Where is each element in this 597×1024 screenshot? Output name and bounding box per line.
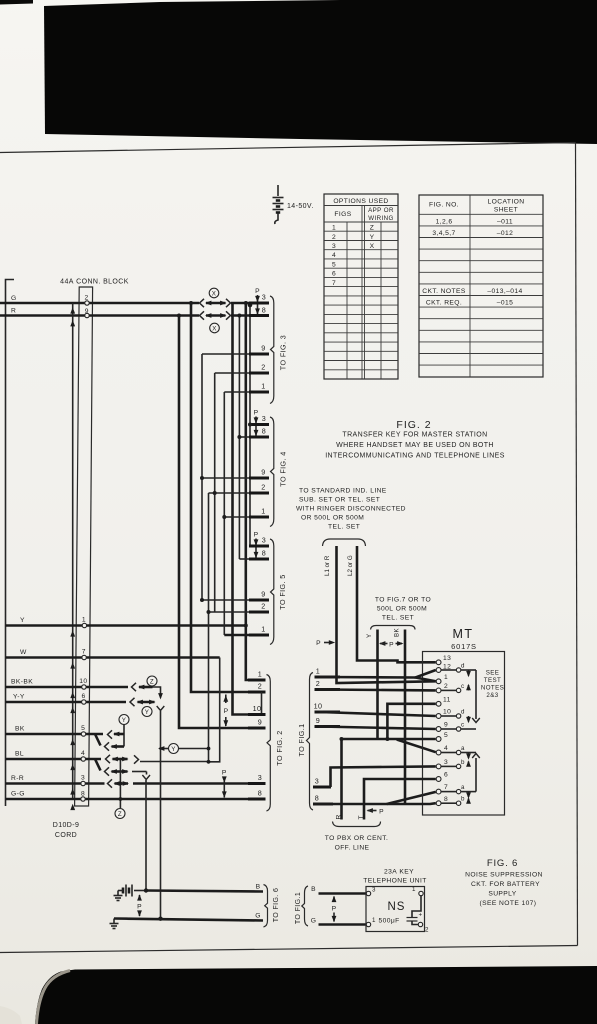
junction battery to B lead (144, 888, 148, 892)
svg-text:P: P (316, 640, 321, 647)
terminal 8 fig2 (248, 798, 266, 801)
svg-text:9: 9 (261, 344, 265, 353)
terminal 10 fig2 (248, 713, 266, 716)
svg-text:X: X (212, 326, 217, 333)
BK-BK break contact (132, 683, 137, 691)
svg-text:2: 2 (261, 363, 265, 372)
bracket over Y BK (371, 626, 416, 630)
svg-text:FIG. 6: FIG. 6 (487, 858, 518, 869)
terminal 9 fig2 (248, 727, 266, 730)
svg-text:TO FIG.7 OR TO: TO FIG.7 OR TO (375, 597, 431, 604)
svg-text:7: 7 (332, 280, 336, 287)
Z option strap vertical (119, 759, 121, 808)
P tick between B and G (139, 895, 141, 901)
svg-text:1: 1 (412, 886, 416, 893)
mesh wire term3 riser to MT3 (331, 766, 436, 787)
right border line (576, 143, 578, 946)
svg-text:3: 3 (332, 243, 336, 250)
svg-text:–013,–014: –013,–014 (487, 288, 522, 295)
wire fig3-1 (224, 391, 249, 393)
svg-text:TELEPHONE UNIT: TELEPHONE UNIT (363, 878, 427, 885)
svg-text:BK-BK: BK-BK (11, 679, 33, 686)
svg-text:8: 8 (444, 796, 448, 803)
battery plates (273, 197, 284, 199)
BL transfer arrows (113, 758, 128, 761)
BL wire onward to bus V10 (140, 761, 209, 763)
wire B into NS (319, 892, 367, 895)
svg-text:WHERE HANDSET MAY BE USED ON B: WHERE HANDSET MAY BE USED ON BOTH (336, 442, 494, 449)
svg-text:BK: BK (15, 726, 25, 733)
svg-text:2: 2 (316, 679, 320, 688)
svg-text:9: 9 (261, 590, 265, 599)
spring row 9 c (441, 728, 456, 730)
svg-text:WITH RINGER DISCONNECTED: WITH RINGER DISCONNECTED (296, 506, 406, 513)
wire R (0, 314, 199, 317)
wire BL term 4 (6, 758, 102, 761)
svg-text:Z: Z (370, 225, 375, 232)
svg-text:d: d (461, 709, 465, 716)
wire G-G term 8 (6, 798, 249, 801)
ground symbol at G lead (110, 919, 119, 929)
option X designation circle (lower) (210, 323, 220, 333)
Y3 left arrow (159, 748, 168, 750)
battery feed strap down (145, 780, 147, 891)
MT terminal circles and numbers (436, 655, 451, 806)
svg-text:7: 7 (82, 649, 86, 656)
svg-text:P: P (222, 770, 227, 777)
Y key moving arm on Y-Y (138, 701, 155, 704)
pin 12 (436, 668, 441, 673)
wire G (0, 302, 199, 305)
svg-text:G: G (311, 918, 317, 925)
link terminal 2 to 10 (261, 692, 263, 715)
svg-text:14-50V.: 14-50V. (287, 203, 314, 210)
vertical bus 1 (V5) (223, 392, 225, 635)
svg-text:SUPPLY: SUPPLY (488, 891, 516, 898)
svg-text:10: 10 (314, 702, 323, 711)
MT unit box (423, 652, 505, 816)
mesh wire term9 to MT9 (320, 727, 436, 730)
svg-text:T: T (358, 815, 365, 820)
bracket fig1 bottom (302, 886, 308, 926)
svg-text:NOTES: NOTES (481, 685, 504, 692)
svg-text:4: 4 (81, 750, 85, 757)
vertical bus 8 (V8) (238, 316, 240, 560)
svg-text:1: 1 (332, 225, 336, 232)
wire BK term 5 (6, 733, 104, 736)
wire G into NS (319, 923, 367, 926)
option Y key circle (BK arm) (119, 715, 129, 725)
svg-text:CORD: CORD (55, 832, 77, 839)
svg-text:8: 8 (315, 794, 319, 803)
svg-text:TRANSFER KEY FOR MASTER STATIO: TRANSFER KEY FOR MASTER STATION (342, 432, 487, 439)
svg-text:3: 3 (258, 773, 262, 782)
svg-text:5: 5 (332, 262, 336, 269)
svg-text:+: + (419, 912, 423, 919)
wire BK to MT 7 (404, 630, 407, 805)
spring row 4 a (441, 752, 456, 754)
vertical bus G (V2) to fig2 term 2 (191, 303, 248, 692)
pin 11 (436, 701, 441, 706)
terminal 3 fig2 (248, 782, 266, 785)
svg-text:1: 1 (258, 670, 262, 679)
svg-text:OR 500L OR 500M: OR 500L OR 500M (301, 515, 364, 522)
svg-text:OFF. LINE: OFF. LINE (335, 845, 370, 852)
bracket to fig6 (264, 885, 268, 928)
battery symbol stem (277, 185, 279, 196)
terminal 8 fig4 (239, 436, 249, 438)
svg-text:G-G: G-G (11, 791, 25, 798)
svg-text:P: P (224, 708, 229, 715)
Y key arm vertical BK rows (123, 725, 125, 747)
Y-Y break contact (130, 698, 135, 706)
svg-text:LOCATION: LOCATION (488, 199, 525, 206)
location sheet table (419, 195, 543, 377)
svg-text:TO PBX OR CENT.: TO PBX OR CENT. (325, 835, 388, 842)
BL fork slant (95, 759, 101, 771)
R-R transfer arrows (115, 782, 129, 785)
wire fig5-2 (209, 611, 250, 613)
wire Y term 1 (6, 624, 246, 627)
mesh wire term1 to hairpin (320, 676, 416, 679)
battery lower stem + hook (275, 214, 278, 225)
svg-text:2: 2 (444, 683, 448, 690)
svg-text:1: 1 (372, 917, 376, 924)
see test notes (481, 670, 504, 700)
svg-text:44A CONN. BLOCK: 44A CONN. BLOCK (60, 279, 129, 286)
svg-text:TEL. SET: TEL. SET (328, 524, 360, 531)
option Y key circle (right arm) (169, 744, 179, 754)
svg-text:8: 8 (258, 789, 262, 798)
svg-text:P: P (255, 288, 260, 295)
BK fork slant (95, 734, 101, 746)
svg-text:L1 or R: L1 or R (324, 555, 331, 576)
terminal 1 fig2 (248, 679, 266, 682)
bracket fig5 (270, 539, 274, 645)
spring row 7 a (441, 791, 456, 793)
lower connector with open contact (472, 754, 480, 759)
svg-text:c: c (461, 722, 465, 729)
svg-text:X: X (212, 291, 217, 298)
svg-text:9: 9 (444, 722, 448, 729)
mesh wire term8 to MT8 (313, 802, 436, 805)
svg-text:SEE: SEE (486, 670, 500, 677)
svg-text:2: 2 (332, 234, 336, 241)
wire BK-BK term 10 (6, 686, 129, 689)
svg-text:B: B (256, 884, 261, 891)
svg-text:a: a (461, 784, 465, 791)
svg-text:10: 10 (253, 704, 262, 713)
terminal 3 fig5 (249, 545, 269, 548)
mesh wire term10 to MT10 (320, 712, 436, 716)
pin 6 (436, 777, 441, 782)
svg-text:10: 10 (443, 709, 451, 716)
NS terminal circles (366, 891, 370, 895)
svg-text:TO FIG. 2: TO FIG. 2 (275, 730, 284, 765)
svg-text:10: 10 (79, 678, 87, 685)
wire fig5-1 (224, 634, 249, 637)
svg-text:3: 3 (262, 536, 266, 545)
vertical from X contact tips to fig2 term 10 (V9) (233, 303, 249, 715)
svg-text:–011: –011 (497, 219, 513, 226)
svg-text:X: X (370, 243, 375, 250)
svg-text:L2 or G: L2 or G (347, 555, 354, 576)
svg-text:–015: –015 (497, 299, 513, 306)
terminal 8 fig3 (249, 314, 269, 317)
bracket fig1 (307, 673, 314, 811)
R-R break contact (108, 779, 113, 787)
option Y key circle (YY arm) (142, 707, 152, 717)
bottom black scan bar (35, 966, 597, 1024)
mesh wire MT11 drop (387, 704, 435, 739)
svg-text:BL: BL (15, 751, 24, 758)
terminal 8 fig5 (239, 558, 249, 560)
upper connector with open contact (475, 670, 477, 719)
spring row 10 d (441, 715, 456, 717)
svg-text:P: P (137, 904, 142, 911)
svg-text:9: 9 (258, 718, 262, 727)
pin 2 (436, 688, 441, 693)
svg-text:2: 2 (258, 682, 262, 691)
svg-text:R-R: R-R (11, 775, 24, 782)
svg-text:INTERCOMMUNICATING AND TELEPHO: INTERCOMMUNICATING AND TELEPHONE LINES (325, 453, 505, 460)
svg-text:P: P (254, 532, 259, 539)
terminal 3 fig1 (313, 786, 331, 789)
svg-text:D10D-9: D10D-9 (53, 822, 80, 829)
terminal circle G-2 (85, 301, 89, 305)
top border line (0, 143, 576, 153)
spring row 3 b (441, 765, 456, 767)
svg-text:(SEE NOTE 107): (SEE NOTE 107) (480, 900, 537, 907)
X transposition contact on R wire (200, 311, 231, 319)
NS unit box (366, 887, 425, 932)
BL break contact (106, 755, 111, 763)
svg-text:b: b (461, 796, 465, 803)
vertical bus 3 (V7) (249, 303, 251, 546)
svg-text:2: 2 (261, 602, 265, 611)
spring row 2 c (441, 689, 456, 691)
svg-text:SHEET: SHEET (494, 207, 518, 214)
svg-text:3: 3 (81, 775, 85, 782)
svg-text:TO STANDARD IND. LINE: TO STANDARD IND. LINE (299, 488, 387, 495)
svg-text:TO FIG. 3: TO FIG. 3 (279, 335, 288, 370)
svg-text:P: P (332, 906, 337, 913)
terminal 9 fig1 (315, 725, 341, 728)
P arrow at T lead (367, 808, 373, 813)
svg-text:1: 1 (444, 674, 448, 681)
svg-text:2: 2 (261, 483, 265, 492)
X transposition contact on G wire (200, 299, 231, 307)
svg-text:6: 6 (332, 271, 336, 278)
svg-text:4: 4 (332, 252, 336, 259)
svg-text:CKT. FOR BATTERY: CKT. FOR BATTERY (471, 881, 540, 888)
svg-text:6017S: 6017S (451, 642, 477, 651)
svg-text:9: 9 (316, 716, 320, 725)
TO FIG.1 terminal group (297, 667, 340, 811)
P arrow between Y and BK (379, 641, 385, 646)
BL second break contact (105, 767, 110, 775)
terminal 3 fig4 (249, 423, 269, 426)
wire B to fig6 (146, 891, 263, 892)
wire fig4-2 (209, 492, 250, 494)
BL second transfer arrows (112, 770, 128, 773)
svg-text:CKT. REQ.: CKT. REQ. (426, 299, 462, 306)
svg-text:FIG. 2: FIG. 2 (396, 419, 431, 431)
svg-text:WIRING: WIRING (368, 215, 393, 222)
svg-text:TO FIG. 6: TO FIG. 6 (273, 888, 280, 923)
svg-text:NS: NS (388, 901, 406, 913)
W wire corner down to BL bus (209, 658, 220, 762)
svg-text:13: 13 (443, 655, 451, 662)
terminal 10 fig1 (315, 711, 341, 714)
BK second break contact (105, 742, 110, 750)
44A conn block outline (75, 287, 93, 806)
svg-text:BK: BK (394, 627, 401, 637)
wire Y-Y term 6 (6, 701, 127, 704)
bottom-left scan shading (37, 971, 71, 1024)
options used table (324, 194, 398, 379)
note block: to fig 7 (375, 597, 431, 622)
spring row 12 d (441, 669, 456, 671)
svg-text:MT: MT (452, 627, 473, 641)
wire fig4-1 (224, 516, 249, 518)
vertical dividers (346, 222, 348, 379)
svg-text:SUB. SET OR TEL. SET: SUB. SET OR TEL. SET (299, 497, 380, 504)
svg-text:Y-Y: Y-Y (13, 694, 25, 701)
svg-text:1: 1 (261, 382, 265, 391)
R lead vertical (340, 739, 343, 820)
terminal 1 fig1 (315, 676, 341, 679)
svg-text:Y: Y (145, 709, 150, 716)
strap wire down to battery feed (160, 711, 162, 919)
svg-text:Y: Y (370, 234, 375, 241)
svg-text:500μF: 500μF (379, 918, 400, 925)
svg-text:b: b (461, 759, 465, 766)
svg-text:1: 1 (261, 507, 265, 516)
wire fig3-2 (215, 372, 249, 374)
stub from BL second arm (132, 771, 147, 773)
svg-text:OPTIONS USED: OPTIONS USED (333, 198, 388, 205)
mesh wire R lead to MT5 (342, 738, 436, 741)
pin 3 (436, 764, 441, 769)
svg-text:R: R (11, 308, 16, 315)
svg-text:3,4,5,7: 3,4,5,7 (432, 230, 455, 237)
contact springs inside MT (441, 663, 480, 806)
battery supply symbol (114, 885, 147, 901)
wire fig4-9 (202, 477, 249, 479)
svg-text:d: d (461, 663, 465, 670)
pin 4 (436, 750, 441, 755)
junction strap to G (158, 917, 162, 921)
svg-text:Z: Z (150, 679, 154, 686)
bracket fig4 (270, 417, 274, 527)
vertical bus via BL key (V10) (208, 493, 210, 762)
svg-text:1: 1 (316, 667, 320, 676)
svg-text:8: 8 (262, 427, 266, 436)
svg-text:B: B (311, 886, 316, 893)
svg-text:1: 1 (261, 625, 265, 634)
svg-text:1: 1 (82, 617, 86, 624)
svg-text:NOISE SUPPRESSION: NOISE SUPPRESSION (465, 872, 543, 879)
svg-text:3: 3 (262, 414, 266, 423)
svg-text:8: 8 (262, 306, 266, 315)
svg-text:Z: Z (118, 811, 122, 818)
svg-text:Y: Y (366, 633, 373, 638)
svg-text:TO FIG.1: TO FIG.1 (295, 892, 302, 924)
svg-text:TEST: TEST (484, 677, 501, 684)
P tick between B and G leads (333, 897, 335, 903)
bottom border line (0, 946, 578, 953)
svg-text:G: G (11, 295, 17, 302)
svg-text:Y: Y (20, 617, 25, 624)
Y3 stub to bus (179, 748, 209, 750)
wire fig5-9 (202, 599, 249, 601)
left cut-off frame line (6, 280, 15, 807)
svg-text:1,2,6: 1,2,6 (436, 219, 453, 226)
terminal 8 fig1 (313, 803, 333, 806)
wire L2 to MT 13 (357, 546, 436, 662)
BK row break contact (108, 730, 113, 738)
vertical bus 2 (V4) (214, 373, 216, 612)
wire fig3-9 (202, 353, 249, 355)
wire W term 7 (6, 656, 220, 659)
svg-text:5: 5 (81, 725, 85, 732)
wire R-R term 3 (6, 782, 105, 785)
svg-text:TO FIG. 5: TO FIG. 5 (278, 574, 287, 609)
terminal circle R-9 (85, 313, 89, 317)
svg-text:FIGS: FIGS (334, 211, 351, 218)
svg-text:500L OR 500M: 500L OR 500M (377, 606, 427, 613)
Z key moving arm on BK-BK (139, 686, 153, 689)
svg-text:P: P (389, 642, 394, 649)
svg-text:3: 3 (262, 293, 266, 302)
svg-text:R: R (336, 814, 343, 819)
svg-text:TO FIG.1: TO FIG.1 (297, 723, 306, 756)
svg-text:7: 7 (444, 784, 448, 791)
mesh wire term2 to MT2 (320, 688, 436, 692)
wire Y to MT 4 (376, 630, 379, 740)
wire G to fig6 (114, 919, 263, 921)
svg-text:W: W (20, 649, 27, 656)
bracket over L1 L2 (323, 539, 366, 546)
terminal 3 fig3 (249, 302, 269, 305)
svg-text:G: G (255, 913, 261, 920)
svg-text:3: 3 (444, 759, 448, 766)
BL make contact (134, 755, 139, 763)
svg-text:9: 9 (261, 468, 265, 477)
svg-text:11: 11 (443, 697, 451, 704)
option X designation circle (upper) (209, 288, 219, 298)
svg-text:P: P (379, 809, 384, 816)
svg-text:8: 8 (262, 549, 266, 558)
pin 8 (436, 801, 441, 806)
svg-text:6: 6 (81, 693, 85, 700)
svg-text:c: c (461, 683, 465, 690)
pin 5 (436, 737, 441, 742)
svg-text:2&3: 2&3 (486, 692, 498, 699)
pin 7 (436, 789, 441, 794)
svg-text:23A KEY: 23A KEY (384, 869, 414, 876)
terminal 2 fig1 (315, 688, 341, 691)
BK second arm arrow (112, 745, 125, 748)
note block: to standard ind line (296, 488, 406, 531)
bracket under R T (333, 822, 381, 827)
svg-text:3: 3 (315, 777, 319, 786)
svg-text:P: P (254, 410, 259, 417)
svg-text:TEL. SET: TEL. SET (382, 615, 414, 622)
vertical bus 9 (V3) (201, 354, 203, 600)
terminal 2 fig2 (248, 691, 266, 694)
